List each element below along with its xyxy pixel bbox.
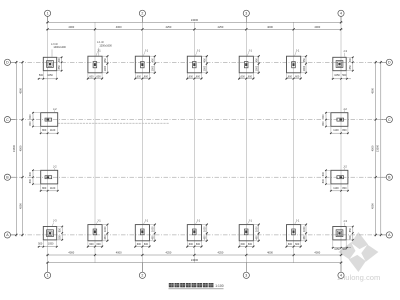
right segment dimension line xyxy=(375,61,377,237)
svg-text:600: 600 xyxy=(89,243,94,246)
grid bubble 2 bottom xyxy=(139,272,145,278)
svg-text:4250: 4250 xyxy=(166,25,172,29)
svg-text:1050: 1050 xyxy=(334,74,340,77)
svg-text:800: 800 xyxy=(342,129,347,132)
svg-text:4500: 4500 xyxy=(18,203,22,209)
svg-text:600: 600 xyxy=(137,243,142,246)
footing J-3 corner bottom-right xyxy=(333,227,346,240)
svg-text:600: 600 xyxy=(295,75,300,78)
svg-text:4500: 4500 xyxy=(18,145,22,151)
footing J-2 left edge row y=177 xyxy=(29,164,59,191)
grid line column 6 xyxy=(293,22,295,262)
svg-text:4500: 4500 xyxy=(370,87,374,93)
bottom total dimension line 24000 xyxy=(46,262,342,264)
footing J-3 corner top-right xyxy=(333,57,346,70)
svg-text:J-1: J-1 xyxy=(248,219,252,223)
footing J-1 top row col 2 xyxy=(87,48,109,79)
svg-text:C: C xyxy=(388,118,391,122)
dims footing J-3 bottom-left xyxy=(38,219,64,248)
svg-text:4000: 4000 xyxy=(116,25,122,29)
bottom segment dimension line xyxy=(46,254,342,256)
svg-text:450: 450 xyxy=(303,58,306,63)
dims footing J-3 top-left xyxy=(38,57,63,80)
grid bubble 1 bottom xyxy=(45,272,51,278)
svg-text:1:100: 1:100 xyxy=(215,284,223,288)
svg-text:4250: 4250 xyxy=(218,25,224,29)
svg-text:600: 600 xyxy=(248,243,253,246)
svg-text:850: 850 xyxy=(58,65,61,70)
grid bubble B right xyxy=(386,174,392,180)
grid line column 1 xyxy=(47,16,49,272)
svg-text:1100: 1100 xyxy=(50,187,56,190)
svg-text:J-2: J-2 xyxy=(343,107,347,111)
svg-text:C: C xyxy=(6,118,9,122)
svg-text:500: 500 xyxy=(58,58,61,63)
svg-text:600: 600 xyxy=(189,75,194,78)
grid line row B (chain) xyxy=(11,176,387,178)
grid bubble 4 top xyxy=(338,10,344,16)
dims footing J-3 bottom-right xyxy=(332,219,354,251)
left segment dimension line xyxy=(22,61,24,237)
svg-text:600: 600 xyxy=(97,75,102,78)
svg-text:600: 600 xyxy=(137,75,142,78)
svg-text:450: 450 xyxy=(204,58,207,63)
svg-text:J-1: J-1 xyxy=(296,48,300,52)
svg-text:800: 800 xyxy=(322,178,325,183)
grid line row D (chain) xyxy=(11,61,387,63)
svg-text:J-2: J-2 xyxy=(343,164,347,168)
grid line column 7 xyxy=(340,16,342,272)
footing J-3 corner bottom-left xyxy=(43,227,56,240)
svg-text:800: 800 xyxy=(342,187,347,190)
grid bubble 3 bottom xyxy=(243,272,249,278)
grid line column 4 xyxy=(193,22,195,262)
grid bubble 3 top xyxy=(243,10,249,16)
svg-text:3: 3 xyxy=(245,12,247,16)
svg-text:500: 500 xyxy=(38,243,43,246)
svg-text:850: 850 xyxy=(58,228,61,233)
svg-text:1000: 1000 xyxy=(303,226,306,232)
svg-text:600: 600 xyxy=(29,171,32,176)
grid line row C (chain) xyxy=(11,119,387,121)
grid bubble D right xyxy=(386,59,392,65)
svg-text:600: 600 xyxy=(322,114,325,119)
svg-text:800: 800 xyxy=(42,129,47,132)
svg-text:J-1: J-1 xyxy=(296,219,300,223)
left total dimension line 13500 xyxy=(15,61,17,237)
svg-text:800: 800 xyxy=(42,187,47,190)
title underline xyxy=(169,288,224,290)
svg-text:1000: 1000 xyxy=(256,226,259,232)
svg-text:J-1: J-1 xyxy=(145,48,149,52)
svg-text:4000: 4000 xyxy=(314,25,320,29)
svg-text:450: 450 xyxy=(104,235,107,240)
grid bubble 2 top xyxy=(139,10,145,16)
footing J-3 corner top-left xyxy=(43,57,56,70)
svg-text:1000: 1000 xyxy=(303,65,306,71)
svg-text:1: 1 xyxy=(47,12,49,16)
svg-text:600: 600 xyxy=(29,114,32,119)
svg-text:24000: 24000 xyxy=(191,258,199,262)
svg-text:600: 600 xyxy=(288,243,293,246)
svg-text:800: 800 xyxy=(29,178,32,183)
svg-text:600: 600 xyxy=(241,75,246,78)
svg-text:450: 450 xyxy=(104,58,107,63)
svg-text:450: 450 xyxy=(303,235,306,240)
title: du li ji chu ping mian bu zhi tu (CJK blobs) xyxy=(169,283,214,287)
grid line row A (chain) xyxy=(11,234,387,236)
watermark zhulong logo xyxy=(338,232,378,272)
svg-text:1100: 1100 xyxy=(333,187,339,190)
footing J-2 right edge row y=120 xyxy=(322,107,349,134)
svg-text:D: D xyxy=(6,61,9,65)
svg-text:4250: 4250 xyxy=(218,251,224,255)
svg-text:500: 500 xyxy=(349,235,352,240)
svg-text:450: 450 xyxy=(256,235,259,240)
svg-text:1050: 1050 xyxy=(47,74,53,77)
svg-text:1000: 1000 xyxy=(104,226,107,232)
svg-text:600: 600 xyxy=(144,243,149,246)
svg-text:4000: 4000 xyxy=(267,251,273,255)
svg-text:13500: 13500 xyxy=(375,144,379,152)
grid bubble 4 bottom xyxy=(338,272,344,278)
svg-text:1: 1 xyxy=(47,274,49,278)
footing J-1 bottom row col 3 xyxy=(134,219,156,248)
svg-text:J-1: J-1 xyxy=(197,48,201,52)
dims footing J-3 top-right xyxy=(332,49,354,80)
svg-text:4000: 4000 xyxy=(116,251,122,255)
svg-text:1000: 1000 xyxy=(152,65,155,71)
svg-text:J-1: J-1 xyxy=(145,219,149,223)
svg-text:600: 600 xyxy=(322,171,325,176)
svg-text:600: 600 xyxy=(196,243,201,246)
svg-text:800: 800 xyxy=(322,121,325,126)
svg-text:4: 4 xyxy=(340,12,342,16)
svg-text:1100: 1100 xyxy=(50,129,56,132)
svg-text:J-1: J-1 xyxy=(97,48,101,52)
svg-text:600: 600 xyxy=(196,75,201,78)
svg-text:500: 500 xyxy=(39,74,44,77)
svg-text:600: 600 xyxy=(248,75,253,78)
footing J-1 bottom row col 5 xyxy=(238,219,260,248)
svg-text:1000: 1000 xyxy=(204,65,207,71)
svg-text:4000: 4000 xyxy=(267,25,273,29)
right total dimension line 13500 xyxy=(380,61,382,237)
svg-text:4000: 4000 xyxy=(314,251,320,255)
svg-text:J-2: J-2 xyxy=(53,107,57,111)
svg-text:1100: 1100 xyxy=(333,129,339,132)
svg-text:450: 450 xyxy=(256,58,259,63)
svg-text:24000: 24000 xyxy=(191,18,199,22)
grid bubble 1 top xyxy=(45,10,51,16)
footing J-1 top row col 4 xyxy=(186,48,208,79)
svg-text:13500: 13500 xyxy=(12,144,16,152)
svg-text:1000: 1000 xyxy=(152,226,155,232)
svg-text:450: 450 xyxy=(152,58,155,63)
svg-text:800: 800 xyxy=(29,121,32,126)
svg-text:450: 450 xyxy=(152,235,155,240)
svg-text:4: 4 xyxy=(340,274,342,278)
svg-text:1000: 1000 xyxy=(204,226,207,232)
top total dimension line 24000 xyxy=(46,21,342,23)
svg-text:600: 600 xyxy=(89,75,94,78)
footing J-1 top row col 5 xyxy=(238,48,260,79)
svg-text:J-1: J-1 xyxy=(97,219,101,223)
svg-text:4250: 4250 xyxy=(166,251,172,255)
svg-text:4500: 4500 xyxy=(18,87,22,93)
svg-text:600: 600 xyxy=(189,243,194,246)
grid line column 3 xyxy=(141,16,143,272)
svg-text:1000: 1000 xyxy=(256,65,259,71)
svg-text:3: 3 xyxy=(245,274,247,278)
svg-text:4000: 4000 xyxy=(68,25,74,29)
grid line column 5 xyxy=(245,16,247,272)
note J-1 1200x1600 col2 xyxy=(97,41,112,56)
svg-text:J-2: J-2 xyxy=(53,164,57,168)
svg-text:4000: 4000 xyxy=(68,251,74,255)
footing J-1 bottom row col 4 xyxy=(186,219,208,248)
svg-text:600: 600 xyxy=(288,75,293,78)
faint note streak right of J-2 footing xyxy=(58,122,169,124)
footing J-1 bottom row col 2 xyxy=(87,219,109,248)
bubble stems top/bottom xyxy=(47,16,49,22)
footing J-1 bottom row col 6 xyxy=(286,219,308,248)
svg-text:600: 600 xyxy=(295,243,300,246)
svg-text:4500: 4500 xyxy=(370,203,374,209)
svg-text:1000: 1000 xyxy=(104,65,107,71)
grid line column 2 xyxy=(94,22,96,262)
svg-text:1050: 1050 xyxy=(48,243,54,246)
svg-text:500: 500 xyxy=(349,58,352,63)
bubble stems left/right xyxy=(11,61,17,63)
svg-text:500: 500 xyxy=(342,248,347,251)
svg-text:4500: 4500 xyxy=(370,145,374,151)
svg-text:J-3: J-3 xyxy=(53,219,57,223)
svg-text:2: 2 xyxy=(141,274,143,278)
footing J-2 left edge row y=120 xyxy=(29,107,59,134)
svg-text:J-3: J-3 xyxy=(343,219,347,223)
svg-text:1200x1600: 1200x1600 xyxy=(99,45,112,48)
svg-text:450: 450 xyxy=(204,235,207,240)
grid bubble C left xyxy=(4,117,10,123)
svg-text:D: D xyxy=(388,61,391,65)
svg-text:2: 2 xyxy=(141,12,143,16)
top segment dimension line xyxy=(46,28,342,30)
footing J-1 top row col 3 xyxy=(134,48,156,79)
grid bubble C right xyxy=(386,117,392,123)
svg-text:J-3: J-3 xyxy=(343,49,347,53)
svg-text:850: 850 xyxy=(349,65,352,70)
svg-text:1050: 1050 xyxy=(334,248,340,251)
grid bubble A left xyxy=(4,232,10,238)
note J-3 1400x1400 top-left xyxy=(51,43,66,57)
svg-text:600: 600 xyxy=(241,243,246,246)
grid bubble A right xyxy=(386,232,392,238)
svg-text:J-1: J-1 xyxy=(248,48,252,52)
footing J-2 right edge row y=177 xyxy=(322,164,349,191)
grid bubble B left xyxy=(4,174,10,180)
svg-text:600: 600 xyxy=(144,75,149,78)
footing J-1 top row col 6 xyxy=(286,48,308,79)
svg-text:500: 500 xyxy=(58,235,61,240)
svg-text:J-1: J-1 xyxy=(197,219,201,223)
svg-text:1400x1400: 1400x1400 xyxy=(53,46,66,49)
grid bubble D left xyxy=(4,59,10,65)
svg-text:500: 500 xyxy=(342,74,347,77)
svg-text:600: 600 xyxy=(97,243,102,246)
svg-text:850: 850 xyxy=(349,228,352,233)
